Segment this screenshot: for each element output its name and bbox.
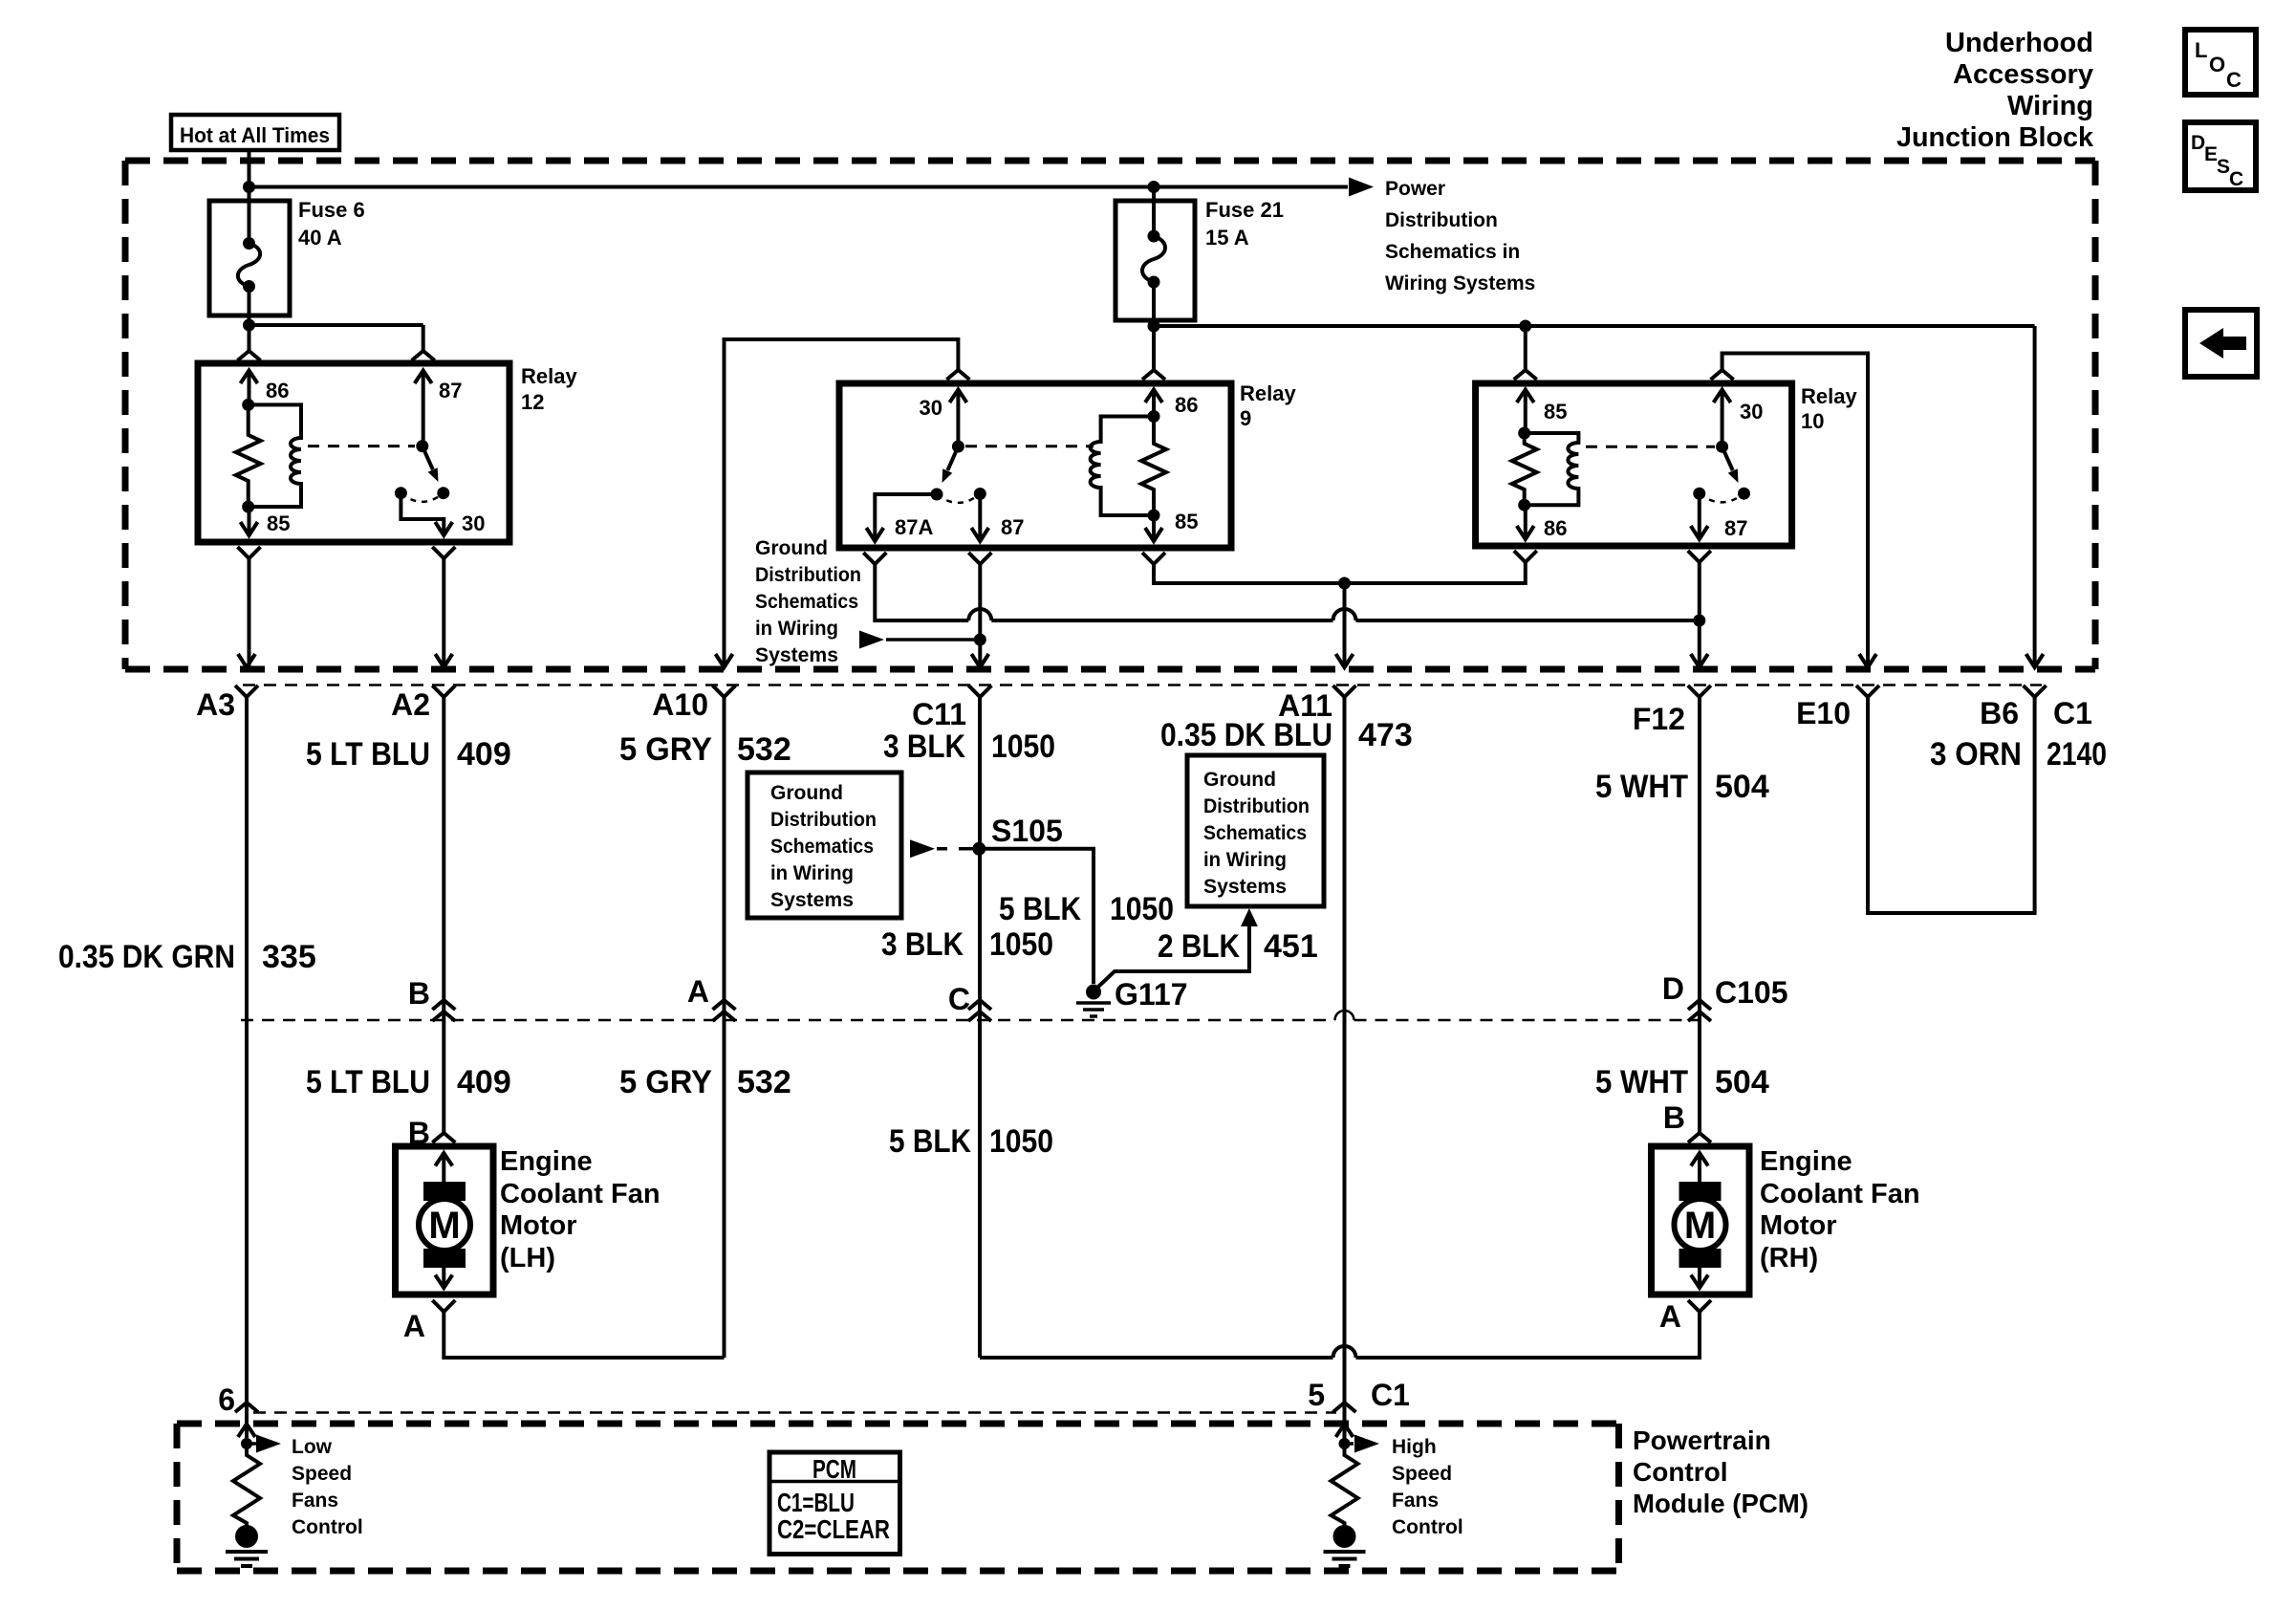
relay K9 switch contacts bbox=[931, 489, 943, 501]
ground G117 bbox=[1076, 985, 1111, 1017]
svg-text:High: High bbox=[1392, 1436, 1437, 1458]
svg-text:9: 9 bbox=[1240, 406, 1251, 430]
wire A2 drop to C105 B bbox=[442, 697, 445, 1020]
relay K9 pin 30 arrow bbox=[949, 390, 966, 447]
svg-text:409: 409 bbox=[457, 736, 511, 772]
svg-text:504: 504 bbox=[1715, 769, 1769, 805]
svg-text:2 BLK: 2 BLK bbox=[1158, 928, 1240, 965]
relay K12 label bbox=[521, 364, 577, 414]
relay K12 switch arm bbox=[422, 446, 433, 470]
node low speed control bbox=[241, 1438, 252, 1449]
svg-text:Ground: Ground bbox=[1203, 769, 1276, 791]
wire LH motor A to A10 route bbox=[444, 1312, 724, 1358]
relay K12 pin 87 arrow bbox=[415, 371, 432, 446]
DESC box bbox=[2185, 122, 2256, 190]
relay K12 pin 86 connector chevron bbox=[238, 351, 261, 360]
relay K9 pin 86 connector chevron bbox=[1142, 370, 1165, 380]
relay K9 coil-switch dashed link bbox=[965, 445, 1094, 447]
svg-text:Relay: Relay bbox=[521, 364, 577, 388]
wire down into fuse 21 bbox=[1152, 187, 1156, 202]
svg-text:Fans: Fans bbox=[292, 1490, 338, 1512]
relay K10 box bbox=[1476, 383, 1792, 546]
svg-text:85: 85 bbox=[1544, 400, 1567, 424]
wire C105 C down to bottom route bbox=[978, 1020, 982, 1358]
wire C105 A down to bottom route bbox=[723, 1020, 726, 1358]
node A11 tap on 85-86 link bbox=[1338, 577, 1351, 590]
ground distribution text near relay 9 bbox=[755, 537, 861, 666]
fuse F21 box bbox=[1116, 201, 1195, 320]
wire from Hot at All Times down to Fuse 6 bbox=[248, 150, 251, 201]
wire power bus from fuse 21 to B6 drop bbox=[1154, 324, 2035, 328]
wire relay9 pin30 over to A10 drop bbox=[725, 339, 959, 666]
wire S105 to G117 bbox=[979, 849, 1094, 984]
relay K12 wire contact to pin 30 bbox=[401, 493, 444, 535]
svg-text:0.35 DK BLU: 0.35 DK BLU bbox=[1160, 717, 1332, 753]
relay K10 coil-switch dashed link bbox=[1586, 446, 1715, 448]
svg-text:E: E bbox=[2204, 143, 2218, 165]
wire hop 87A over C11 wire bbox=[968, 609, 991, 620]
wire label 5 GRY 532 row2 bbox=[619, 1064, 791, 1100]
relay K9 pin 87 arrow bbox=[971, 528, 988, 541]
svg-text:A10: A10 bbox=[652, 687, 708, 722]
connector C105 D chevrons bbox=[1688, 1000, 1711, 1021]
svg-text:5 BLK: 5 BLK bbox=[889, 1123, 971, 1160]
svg-text:C: C bbox=[948, 982, 970, 1016]
svg-text:Control: Control bbox=[1633, 1457, 1728, 1487]
wire label 0.35 DK GRN 335 on A3 wire bbox=[58, 939, 316, 975]
fuse F21 label bbox=[1205, 198, 1284, 250]
connector labels row bbox=[196, 687, 2092, 736]
PCM pin 5 chevron bbox=[1333, 1403, 1356, 1412]
wire C105 D down to RH motor B bbox=[1698, 1020, 1701, 1133]
relay K12 pin 30 arrow bbox=[435, 522, 452, 535]
svg-text:Junction Block: Junction Block bbox=[1896, 122, 2094, 153]
relay K10 pin 87 chevron below bbox=[1688, 551, 1711, 562]
relay K10 label bbox=[1801, 384, 1857, 433]
relay K9 wire contact to pin 87A bbox=[875, 494, 937, 541]
svg-text:C: C bbox=[2226, 68, 2242, 92]
svg-text:C1=BLU: C1=BLU bbox=[777, 1488, 855, 1517]
svg-text:A: A bbox=[403, 1309, 425, 1343]
svg-text:85: 85 bbox=[1175, 510, 1198, 533]
wire fuse21 down to relay 9 pin 86 bbox=[1152, 326, 1156, 370]
svg-text:Systems: Systems bbox=[770, 889, 854, 911]
junction block title text bbox=[1896, 28, 2094, 153]
LH motor pin A chevron below bbox=[432, 1300, 455, 1312]
ground distribution leader arrow to S105 bbox=[910, 839, 935, 858]
svg-text:PCM: PCM bbox=[812, 1454, 856, 1484]
Hot at All Times label box bbox=[171, 115, 339, 150]
svg-text:1050: 1050 bbox=[991, 729, 1055, 765]
wire E10 and B6 loop below junction block bbox=[1868, 697, 2035, 913]
wire hop 87A over A11 wire bbox=[1333, 609, 1356, 620]
relay K12 pin 30 connector chevron below bbox=[432, 547, 455, 558]
svg-text:A: A bbox=[1659, 1299, 1681, 1334]
left arrow box bbox=[2185, 310, 2257, 377]
svg-text:Distribution: Distribution bbox=[1385, 209, 1498, 231]
svg-text:Ground: Ground bbox=[770, 782, 843, 804]
connector C105 labels bbox=[408, 971, 1788, 1016]
svg-text:in Wiring: in Wiring bbox=[1203, 849, 1287, 871]
svg-text:M: M bbox=[1684, 1205, 1716, 1247]
relay K12 pin 87 connector chevron bbox=[412, 351, 435, 360]
svg-text:86: 86 bbox=[1544, 516, 1567, 540]
svg-text:D: D bbox=[1662, 971, 1684, 1006]
svg-text:Fuse 6: Fuse 6 bbox=[298, 198, 365, 222]
wire power feed horizontal to Power Distribution arrow bbox=[249, 185, 1349, 189]
svg-text:30: 30 bbox=[920, 396, 942, 420]
relay K9 resistor bbox=[1141, 417, 1166, 516]
svg-text:B: B bbox=[1663, 1100, 1685, 1135]
svg-text:C: C bbox=[2229, 168, 2243, 190]
wire A11 drop to junction block border bbox=[1343, 583, 1347, 666]
Power Distribution annotation bbox=[1385, 178, 1535, 294]
svg-text:451: 451 bbox=[1264, 928, 1318, 965]
underhood accessory wiring junction block dashed border bbox=[125, 161, 2095, 669]
svg-text:5: 5 bbox=[1308, 1378, 1325, 1412]
wire RH motor A to C105 C route with hop over A11 bbox=[980, 1312, 1700, 1358]
wire label 5 LT BLU 409 row2 bbox=[306, 1064, 511, 1100]
motor M-RH box bbox=[1652, 1146, 1750, 1295]
relay K12 coil-switch dashed link bbox=[308, 445, 415, 447]
svg-text:Motor: Motor bbox=[1760, 1210, 1837, 1241]
RH motor pin A arrow bbox=[1691, 1264, 1708, 1288]
wire relay12 pin30 to A2 bbox=[442, 558, 445, 666]
svg-text:Speed: Speed bbox=[292, 1463, 352, 1485]
wire B6 drop from power bus bbox=[2033, 326, 2037, 666]
wire C105 B down to LH motor B bbox=[442, 1020, 445, 1133]
LOC box bbox=[2185, 30, 2256, 95]
svg-text:335: 335 bbox=[262, 939, 316, 975]
relay K12 pin 85 arrow bbox=[241, 507, 258, 535]
wire relay10 pin30 up and over to E10 drop bbox=[1722, 354, 1868, 667]
wire label 5 BLK 1050 row2 bbox=[889, 1123, 1053, 1160]
svg-text:Ground: Ground bbox=[755, 537, 828, 559]
svg-text:40 A: 40 A bbox=[298, 226, 342, 250]
node below fuse 21 bbox=[1148, 320, 1160, 333]
ground distribution box above G117 bbox=[1187, 755, 1324, 906]
relay K10 pin 87 arrow bbox=[1691, 526, 1708, 539]
svg-text:Systems: Systems bbox=[1203, 876, 1287, 898]
svg-text:C11: C11 bbox=[912, 697, 966, 731]
LH motor pin A arrow bbox=[435, 1264, 452, 1288]
svg-text:G117: G117 bbox=[1115, 977, 1188, 1012]
svg-text:87: 87 bbox=[1001, 515, 1024, 539]
svg-text:in Wiring: in Wiring bbox=[755, 618, 838, 640]
svg-text:Wiring: Wiring bbox=[2007, 91, 2093, 121]
svg-text:C1: C1 bbox=[1371, 1378, 1410, 1412]
low speed driver resistor bbox=[233, 1444, 260, 1534]
svg-text:86: 86 bbox=[266, 379, 289, 402]
RH motor pin A chevron below bbox=[1688, 1300, 1711, 1312]
svg-text:in Wiring: in Wiring bbox=[770, 862, 854, 884]
svg-text:Accessory: Accessory bbox=[1953, 59, 2093, 90]
svg-text:86: 86 bbox=[1175, 393, 1198, 417]
svg-text:85: 85 bbox=[267, 511, 290, 535]
svg-text:F12: F12 bbox=[1633, 702, 1685, 736]
LH motor brushes bbox=[423, 1182, 466, 1201]
svg-text:5 WHT: 5 WHT bbox=[1595, 1064, 1688, 1100]
wire label 2 BLK 451 bbox=[1158, 928, 1318, 965]
svg-text:Power: Power bbox=[1385, 178, 1445, 200]
PCM connector thin dashed line bbox=[253, 1411, 1336, 1414]
svg-text:87A: 87A bbox=[895, 515, 933, 539]
svg-text:Hot at All Times: Hot at All Times bbox=[180, 123, 330, 147]
relay K10 coil node bottom bbox=[1518, 499, 1530, 511]
node high speed control bbox=[1339, 1438, 1351, 1449]
svg-text:Distribution: Distribution bbox=[770, 809, 877, 831]
svg-text:15 A: 15 A bbox=[1205, 226, 1249, 250]
wire A10 drop to C105 A bbox=[723, 697, 726, 1020]
LH motor label bbox=[500, 1146, 661, 1273]
wire label 5 LT BLU 409 row1 bbox=[306, 736, 511, 772]
relay K12 contact dashed arc bbox=[401, 493, 443, 502]
wire G117 to ground distribution box triangle bbox=[1098, 926, 1249, 987]
svg-text:5 GRY: 5 GRY bbox=[619, 1064, 712, 1100]
svg-text:Coolant Fan: Coolant Fan bbox=[1760, 1179, 1920, 1209]
svg-text:87: 87 bbox=[439, 379, 462, 402]
svg-text:Schematics in: Schematics in bbox=[1385, 241, 1520, 263]
svg-text:12: 12 bbox=[521, 390, 544, 414]
relay K9 pin 87 chevron below bbox=[968, 553, 991, 564]
svg-text:5 LT BLU: 5 LT BLU bbox=[306, 1064, 430, 1100]
wire label 3 BLK 1050 on C11 wire lower bbox=[881, 926, 1053, 963]
node junction above fuse 21 bbox=[1148, 181, 1160, 193]
low speed fans control label bbox=[292, 1436, 363, 1538]
connector C105 dashed line bbox=[241, 1019, 1700, 1022]
relay K10 pin 85 connector chevron bbox=[1514, 370, 1537, 380]
wire label 3 ORN 2140 bbox=[1930, 736, 2107, 772]
svg-text:5 BLK: 5 BLK bbox=[999, 891, 1081, 927]
connector C105 B chevrons bbox=[432, 1000, 455, 1021]
svg-text:Speed: Speed bbox=[1392, 1463, 1452, 1485]
svg-text:504: 504 bbox=[1715, 1064, 1769, 1100]
power distribution arrowhead bbox=[1349, 178, 1374, 197]
svg-text:0.35 DK GRN: 0.35 DK GRN bbox=[58, 939, 235, 975]
svg-text:1050: 1050 bbox=[989, 926, 1053, 963]
relay K10 pin 30 connector chevron bbox=[1711, 370, 1734, 380]
svg-text:Distribution: Distribution bbox=[755, 564, 861, 586]
wire relay12 pin85 to A3 bbox=[248, 558, 251, 666]
svg-text:30: 30 bbox=[462, 511, 485, 535]
relay K9 switch arm bbox=[947, 446, 958, 470]
relay K10 wire contact to pin 87 bbox=[1698, 493, 1701, 539]
svg-text:Control: Control bbox=[1392, 1516, 1463, 1538]
fuse F6 box bbox=[209, 201, 290, 315]
relay K10 switch arm bbox=[1722, 446, 1733, 470]
relay K10 resistor bbox=[1512, 433, 1537, 505]
svg-text:1050: 1050 bbox=[989, 1123, 1053, 1160]
svg-text:S105: S105 bbox=[991, 814, 1063, 848]
svg-text:E10: E10 bbox=[1796, 696, 1851, 730]
fuse F6 element bbox=[238, 201, 260, 315]
wire F12 drop to C105 D bbox=[1698, 697, 1701, 1020]
relay K12 switch pivot bbox=[416, 440, 428, 452]
connector C105 C chevrons bbox=[968, 1000, 991, 1021]
svg-text:C1: C1 bbox=[2053, 696, 2092, 730]
RH motor brushes bbox=[1679, 1182, 1722, 1201]
svg-text:409: 409 bbox=[457, 1064, 511, 1100]
fuse F21 element bbox=[1142, 201, 1165, 326]
RH motor label bbox=[1760, 1146, 1920, 1273]
node ground leader on C11 wire bbox=[974, 634, 986, 646]
svg-text:Motor: Motor bbox=[500, 1210, 577, 1241]
svg-text:C105: C105 bbox=[1715, 975, 1788, 1010]
high speed driver ground bbox=[1324, 1525, 1366, 1566]
LH motor circle M bbox=[419, 1199, 470, 1251]
relay K10 pin 86 arrow bbox=[1517, 505, 1534, 539]
svg-text:Relay: Relay bbox=[1240, 381, 1296, 405]
connector C105 A chevrons bbox=[713, 1000, 736, 1021]
svg-text:6: 6 bbox=[218, 1382, 235, 1417]
PCM legend box bbox=[769, 1452, 900, 1555]
svg-text:O: O bbox=[2209, 53, 2225, 76]
svg-text:Low: Low bbox=[292, 1436, 333, 1458]
svg-text:Control: Control bbox=[292, 1516, 363, 1538]
wire relay9 pin87A over to F12 bbox=[875, 564, 1700, 620]
svg-text:(RH): (RH) bbox=[1760, 1243, 1818, 1273]
relay K12 resistor bbox=[236, 404, 261, 507]
svg-text:B6: B6 bbox=[1980, 696, 2019, 730]
svg-text:5 GRY: 5 GRY bbox=[619, 731, 712, 768]
relay K12 coil bbox=[249, 404, 301, 507]
relay K9 box bbox=[839, 383, 1231, 548]
junction block exit chevrons below connector line bbox=[235, 685, 2047, 697]
node tap to relay 10 pin 85 bbox=[1519, 320, 1531, 333]
RH motor circle M bbox=[1675, 1199, 1726, 1251]
wire A11 drop to PCM pin 5 bbox=[1343, 697, 1347, 1444]
relay K10 pin 86 chevron below bbox=[1514, 551, 1537, 562]
svg-text:87: 87 bbox=[1724, 516, 1747, 540]
ground distribution leader arrow to C11 wire bbox=[859, 631, 884, 649]
wire tap down to relay 10 pin 85 bbox=[1524, 326, 1527, 370]
PCM dashed box bbox=[177, 1424, 1619, 1571]
ground distribution box left of S105 bbox=[747, 772, 901, 918]
svg-text:Relay: Relay bbox=[1801, 384, 1857, 408]
svg-text:Coolant Fan: Coolant Fan bbox=[500, 1179, 661, 1209]
svg-text:Underhood: Underhood bbox=[1945, 28, 2093, 58]
svg-text:Engine: Engine bbox=[1760, 1146, 1852, 1177]
PCM pin 6 entry arrow bbox=[238, 1425, 255, 1438]
relay K10 switch contacts bbox=[1693, 488, 1705, 500]
RH motor pin B arrow bbox=[1691, 1153, 1708, 1186]
svg-text:C2=CLEAR: C2=CLEAR bbox=[777, 1514, 890, 1544]
high speed leader arrow bbox=[1345, 1442, 1354, 1446]
relay K12 coil node bottom bbox=[242, 501, 254, 513]
relay K9 pin 30 connector chevron bbox=[946, 370, 969, 380]
svg-text:Systems: Systems bbox=[755, 644, 838, 666]
wire label 5 WHT 504 row2 bbox=[1595, 1064, 1769, 1100]
svg-text:Module (PCM): Module (PCM) bbox=[1633, 1489, 1809, 1518]
svg-text:2140: 2140 bbox=[2047, 736, 2107, 772]
low speed driver ground bbox=[226, 1525, 268, 1566]
svg-text:3 BLK: 3 BLK bbox=[881, 926, 964, 963]
relay K9 wire contact to pin 87 bbox=[978, 494, 982, 542]
node 87A joins relay10 pin87 wire bbox=[1693, 615, 1705, 627]
relay K9 pin 85 chevron below bbox=[1142, 553, 1165, 564]
wire label 5 BLK 1050 on S105-G117 wire bbox=[999, 891, 1174, 927]
svg-text:Fuse 21: Fuse 21 bbox=[1205, 198, 1284, 222]
relay K10 switch pivot bbox=[1716, 441, 1728, 453]
relay K9 switch pivot bbox=[952, 441, 964, 453]
connector row thin dashed line below junction block bbox=[243, 684, 2042, 686]
motor M-LH box bbox=[396, 1146, 494, 1295]
node S105 splice bbox=[972, 842, 986, 856]
svg-text:Powertrain: Powertrain bbox=[1633, 1425, 1771, 1455]
relay K10 pin 85 arrow bbox=[1517, 390, 1534, 434]
relay K9 coil bbox=[1091, 417, 1154, 516]
svg-text:D: D bbox=[2191, 132, 2205, 154]
relay K12 pin 85 connector chevron below bbox=[238, 547, 261, 558]
svg-text:M: M bbox=[428, 1205, 460, 1247]
wire label 3 BLK 1050 row1 bbox=[883, 729, 1055, 765]
svg-text:3 ORN: 3 ORN bbox=[1930, 736, 2022, 772]
relay K9 pin 85 arrow bbox=[1145, 515, 1162, 541]
svg-text:Distribution: Distribution bbox=[1203, 795, 1310, 817]
PCM pin 5 entry arrow bbox=[1336, 1425, 1354, 1438]
svg-text:Schematics: Schematics bbox=[1203, 822, 1307, 844]
svg-text:1050: 1050 bbox=[1110, 891, 1174, 927]
relay K12 box bbox=[198, 363, 509, 542]
wire hop bottom route over A11 wire bbox=[1333, 1346, 1356, 1358]
svg-text:10: 10 bbox=[1801, 409, 1824, 433]
svg-text:Schematics: Schematics bbox=[755, 591, 858, 613]
svg-text:L: L bbox=[2195, 38, 2207, 62]
relay K9 label bbox=[1240, 381, 1296, 430]
LH motor pin B chevron bbox=[432, 1133, 455, 1142]
low speed leader arrow bbox=[247, 1442, 256, 1446]
wire relay10 pin87 down to F12 bbox=[1698, 562, 1701, 666]
wire label 5 GRY 532 row1 bbox=[619, 731, 791, 768]
svg-text:30: 30 bbox=[1740, 400, 1763, 424]
wire label 5 WHT 504 row1 bbox=[1595, 769, 1769, 805]
relay K10 coil bbox=[1525, 433, 1579, 505]
relay K12 coil node top bbox=[242, 399, 254, 411]
svg-text:473: 473 bbox=[1358, 717, 1413, 753]
svg-text:Fans: Fans bbox=[1392, 1490, 1439, 1512]
svg-text:5 WHT: 5 WHT bbox=[1595, 769, 1688, 805]
svg-text:5 LT BLU: 5 LT BLU bbox=[306, 736, 430, 772]
high speed fans control label bbox=[1392, 1436, 1463, 1538]
wire A3 long drop to PCM pin 6 bbox=[245, 697, 249, 1444]
svg-text:3 BLK: 3 BLK bbox=[883, 729, 965, 765]
svg-text:532: 532 bbox=[737, 731, 791, 768]
fuse F6 label bbox=[298, 198, 365, 250]
relay K12 pin 86 arrow bbox=[241, 371, 258, 405]
svg-text:Schematics: Schematics bbox=[770, 836, 874, 858]
PCM pin 6 chevron bbox=[235, 1403, 258, 1412]
wire relay9 pin87 down to C11 bbox=[978, 564, 982, 666]
wire fuse6 to relay12 pins 86 and 87 bbox=[249, 315, 423, 351]
relay K10 coil node top bbox=[1518, 427, 1530, 440]
relay K9 coil node top bbox=[1148, 410, 1160, 423]
relay K9 pin 87A chevron below bbox=[863, 553, 886, 564]
LH motor pin B arrow bbox=[435, 1153, 452, 1186]
svg-text:Engine: Engine bbox=[500, 1146, 593, 1177]
svg-text:A2: A2 bbox=[391, 687, 430, 722]
relay K10 contact dashed arc bbox=[1700, 493, 1744, 502]
wire label 0.35 DK BLU 473 bbox=[1160, 717, 1413, 753]
wire C11 drop through S105 to C105 C bbox=[978, 697, 982, 1020]
svg-text:A: A bbox=[687, 974, 709, 1009]
relay K9 pin 86 arrow bbox=[1145, 390, 1162, 417]
svg-text:Wiring Systems: Wiring Systems bbox=[1385, 272, 1535, 294]
svg-text:(LH): (LH) bbox=[500, 1243, 555, 1273]
svg-text:532: 532 bbox=[737, 1064, 791, 1100]
relay K12 switch contacts bbox=[395, 487, 407, 499]
relay K9 coil node bottom bbox=[1148, 510, 1160, 522]
RH motor pin B chevron bbox=[1688, 1133, 1711, 1142]
